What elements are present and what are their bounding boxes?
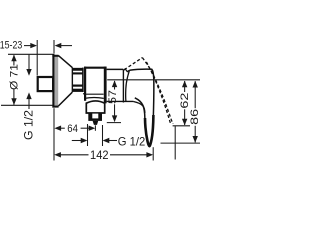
handle skirt notch: [124, 69, 130, 72]
extension line wall-face bottom x54: [53, 108, 55, 160]
arrowhead O71 down: [11, 98, 16, 105]
extension line outlet-center x95.4: [94, 125, 96, 131]
cone top edge: [58, 56, 72, 68]
outlet hose connector dark: [88, 113, 102, 121]
arrowhead 15-23 left: [55, 43, 62, 48]
escutcheon plate bottom edge: [52, 106, 58, 108]
arrowhead 142 left: [54, 152, 61, 157]
cartridge sleeve top edge: [107, 68, 124, 70]
arrowhead 15-23 right: [30, 43, 37, 48]
reference line dashed-handle-bottom y125.8: [173, 125, 190, 127]
escutcheon plate top edge: [52, 55, 58, 57]
dimension 86 shaft bottom: [194, 126, 196, 143]
arrowhead G12-bottom right: [81, 138, 88, 143]
arrowhead 57 down: [112, 115, 117, 122]
escutcheon plate left edge: [52, 54, 54, 108]
dimension G12-bottom shaft left: [72, 140, 81, 142]
valve body top edge: [84, 67, 107, 69]
handle hook thick part: [145, 115, 153, 146]
arrowhead 62 up: [182, 81, 187, 88]
svg-text:64: 64: [67, 123, 78, 135]
dimension O71 shaft top: [13, 55, 15, 65]
svg-text:86: 86: [189, 109, 200, 125]
arrowhead G12-left up: [26, 92, 31, 99]
dimension 142 shaft right: [110, 154, 147, 156]
arrowhead G12-left down: [26, 69, 31, 76]
extension line x175.2: [174, 126, 176, 159]
cone bottom edge: [58, 92, 72, 106]
cartridge sleeve right edge: [122, 69, 124, 102]
arrowhead 57 up: [112, 80, 117, 87]
reference line solid-handle-bottom y143.1: [161, 142, 201, 144]
dimension 57 shaft top: [114, 81, 116, 90]
extension line escutcheon top y54.3: [8, 53, 53, 55]
leader G12-left shaft bottom: [28, 98, 30, 110]
dimension 64 shaft right: [81, 127, 90, 129]
dimension O71 shaft bottom: [13, 89, 15, 105]
arrowhead 86 down: [193, 136, 198, 143]
svg-text:G 1/2: G 1/2: [118, 135, 146, 149]
cartridge ring black band: [104, 67, 107, 104]
extension line escutcheon bottom y105.3: [1, 104, 53, 106]
extension line outlet-left x87.5: [87, 124, 89, 146]
extension line handle-right x153.2: [152, 147, 154, 160]
dimension 57 shaft bottom: [114, 104, 116, 121]
extension line outlet-right x102.5: [102, 125, 104, 146]
supply nipple: [38, 77, 53, 91]
handle skirt right edge: [126, 70, 130, 101]
svg-text:57: 57: [107, 90, 119, 104]
outlet housing: [86, 101, 104, 113]
union nut: [72, 67, 84, 92]
extension line wall-left x37.2: [36, 40, 38, 76]
dimension 142 shaft left: [61, 154, 89, 156]
dimension 62 shaft bottom: [184, 109, 186, 125]
dimension G12-bottom shaft right: [109, 140, 117, 142]
dimension 86 shaft top: [194, 81, 196, 108]
svg-text:15-23: 15-23: [0, 40, 22, 52]
svg-text:G 1/2: G 1/2: [22, 110, 36, 140]
cartridge sleeve bottom edge: [107, 100, 134, 102]
dimension 15-23 shaft right: [61, 45, 72, 47]
arrowhead 64 right: [89, 126, 96, 131]
valve body left edge: [84, 67, 86, 101]
leader G12-left shaft top: [28, 55, 30, 70]
escutcheon plate gray band: [54, 55, 58, 107]
reference line handle-top y79.8 (overlay): [107, 79, 200, 81]
svg-text:Ø 71: Ø 71: [9, 64, 21, 90]
arrowhead O71 up: [11, 55, 16, 62]
handle underside curve: [133, 102, 144, 114]
handle lever outline: [130, 69, 154, 146]
extension line wall-face top x54: [53, 40, 55, 54]
arrowhead 142 right: [146, 152, 153, 157]
reference line outlet-bottom y122.6 (overlay): [107, 122, 121, 124]
dimension 15-23 shaft left: [24, 45, 31, 47]
dimension 64 shaft left: [60, 127, 64, 129]
arrowhead G12-bottom left: [103, 138, 110, 143]
arrowhead 86 up: [193, 81, 198, 88]
arrowhead 62 down: [182, 119, 187, 126]
valve body joint arc: [85, 97, 104, 100]
valve body bottom line: [84, 93, 103, 95]
svg-text:142: 142: [90, 148, 109, 162]
outlet tip: [93, 121, 99, 125]
arrowhead 64 left: [54, 126, 61, 131]
svg-text:62: 62: [179, 93, 191, 109]
nut bottom chamfer: [83, 93, 85, 96]
outlet hose connector white slot: [92, 114, 98, 119]
dashed handle open position: [124, 58, 173, 125]
dimension 62 shaft top: [184, 81, 186, 92]
